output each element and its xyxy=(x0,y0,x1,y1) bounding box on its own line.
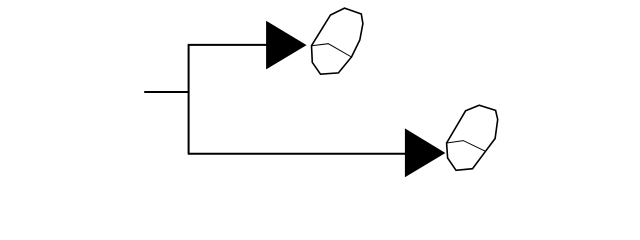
blob top internal crease line xyxy=(312,44,352,57)
arrow buffer top xyxy=(266,21,307,70)
wire input stub xyxy=(144,91,189,93)
blob top outline xyxy=(312,8,363,74)
wire bottom branch xyxy=(188,153,406,155)
wire vertical branch bus xyxy=(188,45,190,154)
wire top branch xyxy=(188,44,267,46)
blob bottom internal crease line xyxy=(447,141,486,152)
blob bottom outline xyxy=(447,105,498,170)
arrow buffer bottom xyxy=(405,128,446,177)
